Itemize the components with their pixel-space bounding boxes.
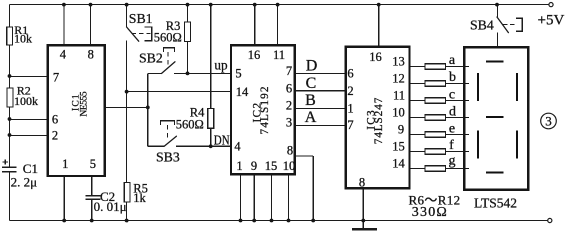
svg-text:LTS542: LTS542	[474, 196, 517, 211]
svg-text:10k: 10k	[14, 32, 32, 46]
svg-text:3: 3	[286, 116, 292, 130]
svg-text:15: 15	[392, 140, 405, 154]
svg-text:8: 8	[287, 143, 293, 157]
svg-text:2: 2	[347, 84, 353, 98]
svg-text:DN: DN	[214, 132, 230, 147]
svg-text:4: 4	[234, 140, 241, 154]
svg-text:16: 16	[248, 48, 261, 62]
svg-text:16: 16	[369, 50, 382, 64]
svg-text:10: 10	[283, 159, 296, 173]
svg-text:SB3: SB3	[156, 149, 180, 164]
svg-text:d: d	[449, 104, 456, 119]
svg-text:11: 11	[393, 89, 405, 103]
svg-text:4: 4	[60, 47, 67, 61]
svg-text:6: 6	[52, 112, 58, 126]
svg-text:1: 1	[62, 157, 68, 171]
svg-text:SB4: SB4	[470, 18, 494, 33]
svg-text:5: 5	[90, 157, 96, 171]
svg-text:1: 1	[347, 101, 353, 115]
svg-text:74LS192: 74LS192	[259, 87, 271, 135]
svg-text:9: 9	[398, 123, 404, 137]
svg-text:SB1: SB1	[129, 11, 153, 26]
svg-text:12: 12	[392, 72, 405, 86]
svg-text:1k: 1k	[133, 191, 146, 205]
svg-text:2: 2	[52, 128, 58, 142]
svg-text:6: 6	[347, 67, 353, 81]
svg-text:A: A	[305, 109, 317, 126]
svg-text:560Ω: 560Ω	[176, 117, 204, 131]
svg-text:10: 10	[392, 106, 405, 120]
svg-text:1: 1	[236, 159, 242, 173]
svg-text:7: 7	[53, 71, 59, 85]
svg-text:13: 13	[392, 55, 405, 69]
svg-text:11: 11	[273, 48, 285, 62]
svg-text:5: 5	[235, 67, 241, 81]
svg-text:330Ω: 330Ω	[412, 205, 448, 220]
svg-text:9: 9	[251, 159, 257, 173]
svg-text:6: 6	[286, 81, 292, 95]
svg-text:B: B	[305, 92, 316, 109]
svg-text:D: D	[306, 58, 318, 75]
svg-text:f: f	[449, 138, 454, 153]
svg-text:8: 8	[88, 48, 94, 62]
svg-text:8: 8	[359, 176, 365, 190]
svg-text:SB2: SB2	[139, 51, 163, 66]
svg-text:C: C	[306, 75, 317, 92]
svg-text:c: c	[449, 87, 455, 102]
svg-text:2. 2μ: 2. 2μ	[11, 175, 37, 190]
svg-text:g: g	[449, 153, 456, 168]
svg-text:15: 15	[265, 159, 278, 173]
svg-text:14: 14	[392, 157, 405, 171]
svg-text:2: 2	[286, 99, 292, 113]
svg-text:3: 3	[545, 114, 552, 129]
svg-text:74LS247: 74LS247	[373, 97, 385, 144]
svg-text:b: b	[449, 70, 456, 85]
svg-text:100k: 100k	[14, 94, 38, 108]
svg-text:a: a	[449, 53, 456, 68]
svg-text:+5V: +5V	[538, 12, 565, 28]
svg-text:7: 7	[347, 118, 353, 132]
svg-text:14: 14	[236, 85, 249, 99]
svg-text:0. 01μ: 0. 01μ	[94, 199, 127, 214]
svg-text:e: e	[449, 122, 455, 137]
svg-text:7: 7	[286, 64, 292, 78]
svg-text:up: up	[214, 59, 227, 74]
svg-text:NE555: NE555	[80, 91, 90, 116]
svg-text:560Ω: 560Ω	[154, 30, 182, 44]
